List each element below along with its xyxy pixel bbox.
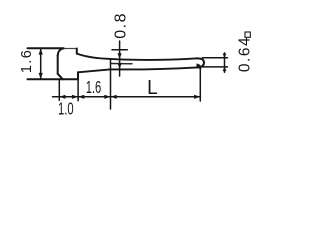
- dim 1.6 bottom right arrow: [104, 95, 110, 99]
- extension line head right: [77, 72, 79, 100]
- svg-text:1.6: 1.6: [86, 79, 102, 98]
- svg-text:L: L: [147, 77, 158, 100]
- shank top edge: [111, 58, 198, 60]
- shank bottom edge: [110, 67, 198, 69]
- head right face lower: [77, 72, 79, 79]
- extension line taper end: [110, 60, 112, 110]
- shank middle coin line: [111, 63, 132, 65]
- head bottom-left chamfer: [58, 74, 63, 80]
- dim 1.0 left arrow: [59, 95, 65, 99]
- taper top line: [77, 54, 111, 59]
- dim 0.64: bottom arrow: [223, 67, 227, 71]
- bottom chain dimension line: [53, 96, 201, 98]
- dim L right arrow: [194, 95, 200, 99]
- head top edge (also extension line for left 1.6): [28, 47, 64, 49]
- head right face upper: [76, 49, 78, 54]
- svg-text:1.6: 1.6: [19, 49, 35, 73]
- extension line head left: [58, 81, 60, 101]
- dim L left arrow: [111, 95, 117, 99]
- dim 1.6 bottom left arrow: [78, 95, 84, 99]
- svg-text:0.8: 0.8: [113, 12, 130, 39]
- dim 1.6 left: dimension line: [40, 48, 42, 79]
- dim 0.64: top arrow: [223, 54, 227, 58]
- dim 1.0 right arrow: [72, 95, 78, 99]
- lead tip rounded cap: [197, 58, 204, 67]
- head left face: [57, 56, 59, 74]
- dim 0.64: bottom extension line: [203, 66, 228, 68]
- square symbol for 0.64: [245, 32, 250, 37]
- head top-left rounded corner: [58, 48, 64, 55]
- lead tip dark fill: [197, 64, 202, 70]
- extension line lead tip: [199, 68, 201, 102]
- svg-text:1.0: 1.0: [58, 100, 74, 119]
- dim 0.64: top extension line: [203, 57, 228, 59]
- dim 0.8: upper arrow: [118, 53, 122, 58]
- dim 1.6 left: bottom arrow: [39, 73, 43, 79]
- dim 0.8: lower arrow: [118, 63, 122, 68]
- dim 1.6 left: top arrow: [39, 48, 43, 54]
- dim 0.64: dimension line: [224, 53, 226, 72]
- taper bottom line: [78, 69, 110, 72]
- dim 0.8: extension bar: [112, 49, 127, 51]
- head bottom edge (also extension line for left 1.6): [28, 78, 79, 80]
- head top edge thin continuation: [64, 48, 77, 50]
- svg-text:0.64: 0.64: [237, 36, 254, 72]
- dim 0.8: dimension line: [119, 41, 121, 76]
